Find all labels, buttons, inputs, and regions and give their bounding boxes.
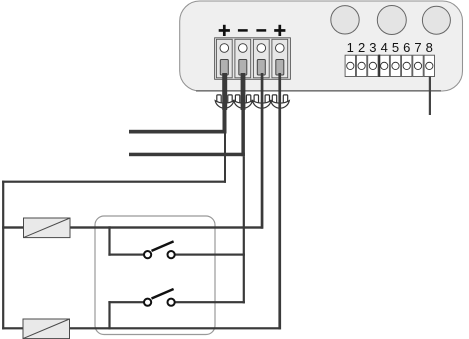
polarity label - (terminal 3)	[256, 29, 266, 32]
TB1 cell 3	[253, 39, 269, 78]
wire switch S1 left lead vertical	[108, 226, 110, 255]
svg-text:6: 6	[403, 40, 410, 55]
wire left vertical bus	[2, 181, 4, 330]
wire from terminal + (vertical thick)	[222, 73, 227, 110]
svg-text:2: 2	[358, 40, 365, 55]
svg-text:3: 3	[369, 40, 376, 55]
strain relief hook 4	[271, 95, 290, 108]
wire row 2 (through R2 to terminal 4)	[2, 327, 281, 329]
svg-text:8: 8	[426, 40, 433, 55]
wire from terminal 8	[429, 77, 431, 116]
strain relief hook 1	[215, 95, 234, 108]
strain relief hook 2	[234, 95, 253, 108]
svg-text:1: 1	[347, 40, 354, 55]
TB1 cell 2	[235, 39, 251, 78]
TB1 cell 1	[216, 39, 232, 78]
TB2 divider between 3 and 4	[378, 55, 380, 77]
polarity label + (terminal 4)	[274, 25, 285, 36]
terminal numbers 1-8	[347, 40, 433, 55]
terminal block TB2 cells 1-8	[345, 55, 434, 76]
control panel body	[180, 1, 463, 91]
wire switch S1 right lead	[175, 254, 245, 256]
TB2 screw circles	[347, 62, 433, 69]
switch S2 contact right	[168, 299, 175, 306]
polarity label - (terminal 2)	[238, 29, 248, 32]
switch S2 contact left	[144, 299, 151, 306]
terminal block TB1 outer	[215, 38, 291, 80]
svg-text:4: 4	[381, 40, 388, 55]
switch S1 lever	[152, 241, 174, 251]
wire from terminal 4 (thin vertical)	[278, 73, 281, 329]
wire switch S2 left lead vertical	[108, 301, 110, 329]
svg-text:5: 5	[392, 40, 399, 55]
wire switch S2 right lead	[175, 301, 245, 303]
panel bottom edge shade	[196, 90, 441, 92]
wire switch S2 left lead horizontal	[108, 301, 144, 303]
wire row 1 (through R1 to terminal 3)	[2, 226, 263, 228]
strain relief hook 3	[252, 95, 271, 108]
knob 2	[377, 6, 406, 35]
wire from terminal - (vertical thick)	[241, 73, 246, 110]
switch S2 lever	[152, 289, 174, 299]
wire left loop horizontal	[2, 181, 226, 183]
resistor R1	[24, 218, 71, 238]
wire switch S1 left lead horizontal	[108, 254, 144, 256]
wire stub cable 1 (horizontal thick)	[129, 130, 227, 134]
knob 1	[331, 6, 359, 34]
detector housing box	[95, 216, 215, 335]
wire common from - down (thin)	[243, 156, 245, 303]
switch S1 contact left	[144, 251, 151, 258]
knob 3	[422, 6, 450, 34]
switch S1 contact right	[168, 251, 175, 258]
TB1 cell 4	[272, 39, 288, 78]
wire stub cable 2 (horizontal thick)	[129, 153, 245, 157]
wire branch from + down (thin)	[224, 134, 226, 183]
polarity label + (terminal 1)	[219, 25, 230, 36]
svg-text:7: 7	[414, 40, 421, 55]
resistor R2	[23, 319, 70, 339]
wire from terminal 3 (thin vertical)	[261, 73, 264, 229]
